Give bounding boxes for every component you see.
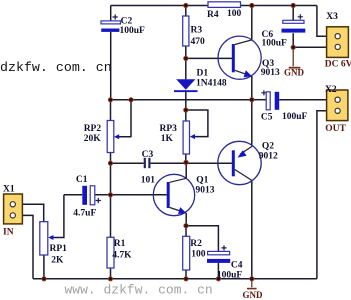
svg-text:Q1: Q1 (196, 175, 208, 185)
svg-text:R3: R3 (191, 26, 203, 36)
svg-text:IN: IN (3, 227, 14, 237)
capacitor C4 bottom plate (207, 259, 230, 263)
wire C2 drop from rail (110, 6, 112, 23)
connector X3 pin 2 (335, 44, 340, 49)
potentiometer RP1 wiper arrow (48, 235, 53, 240)
svg-text:C4: C4 (231, 261, 243, 271)
node rail-C6 (291, 3, 295, 7)
node rail-GND (250, 277, 254, 281)
wire Q1 emitter vertical (185, 213, 187, 226)
svg-text:D1: D1 (197, 68, 209, 78)
wire X2 pin2 down leg (317, 111, 335, 279)
svg-text:C1: C1 (76, 175, 88, 185)
transistor Q3 emitter line (235, 70, 252, 76)
node rail-R1 (108, 277, 112, 281)
svg-text:1N4148: 1N4148 (196, 79, 227, 89)
capacitor C6 top plate (283, 20, 304, 23)
resistor R4 100 (208, 2, 241, 8)
capacitor C1 left plate (82, 186, 87, 205)
wire top rail (111, 5, 317, 7)
wire RP1 wiper to C1 (53, 195, 64, 238)
transistor Q1 emitter arrow (178, 207, 186, 214)
potentiometer RP1 body (40, 222, 48, 255)
wire X1 pin1 to RP1 top (14, 204, 44, 221)
wire C5 right to X2 pin1 (279, 99, 335, 101)
svg-text:100uF: 100uF (217, 271, 243, 281)
wire node to X3 pin2 (293, 46, 335, 48)
wire C2 bottom to node (110, 32, 112, 100)
wire RP3 bypass loop (186, 110, 208, 137)
capacitor C3 right plate (148, 158, 150, 168)
capacitor C4 top plate (208, 251, 230, 254)
connector X2 box (327, 90, 348, 121)
svg-text:1K: 1K (161, 134, 174, 144)
svg-text:100uF: 100uF (282, 112, 308, 122)
ground symbol near X3 (292, 47, 294, 66)
potentiometer RP2 wiper arrow (114, 134, 119, 139)
wire Q3 base y=58.4 (186, 57, 232, 59)
transistor Q3 collector line (235, 40, 252, 45)
svg-text:OUT: OUT (325, 124, 346, 134)
transistor Q3 base bar (232, 44, 235, 72)
svg-text:100: 100 (191, 250, 206, 260)
capacitor C6 bottom plate (282, 29, 306, 33)
node Q1 emitter (184, 224, 188, 228)
node C6-X3 (291, 45, 295, 49)
node RP2 wiper tap (129, 98, 133, 102)
transistor Q1 base bar (167, 182, 170, 208)
wire ground rail (33, 278, 317, 280)
resistor R2 100 (183, 236, 190, 270)
capacitor C1 plus sign (96, 198, 101, 203)
capacitor C2 plus sign (113, 14, 118, 19)
svg-text:GND: GND (243, 290, 264, 300)
wire Q1 emitter to C4 (186, 226, 218, 252)
connector X1 box (4, 194, 23, 224)
wire Q1 collector vertical (185, 162, 187, 178)
connector X3 pin 1 (335, 34, 340, 39)
connector X2 pin 2 (335, 108, 340, 113)
svg-text:www. dzkfw. com. cn: www. dzkfw. com. cn (65, 283, 213, 298)
wire RP2 wiper branch (119, 100, 132, 137)
svg-text:9012: 9012 (259, 151, 278, 161)
svg-text:470: 470 (191, 37, 206, 47)
svg-text:RP2: RP2 (84, 124, 102, 134)
wire Q2 collector vertical (251, 180, 253, 279)
node rail-C4 (216, 277, 220, 281)
wire C5 left (252, 99, 266, 101)
connector X2 pin 1 (335, 97, 340, 102)
svg-text:C2: C2 (121, 17, 133, 27)
svg-text:X3: X3 (326, 12, 338, 22)
wire RP1 bottom (43, 255, 45, 279)
capacitor C2 top plate (101, 21, 121, 24)
svg-text:RP1: RP1 (50, 244, 68, 254)
svg-text:X1: X1 (3, 185, 15, 195)
transistor Q1 collector line (170, 178, 187, 182)
wire C1 / Q1 base y=195 (64, 194, 167, 196)
node output junction (250, 98, 254, 102)
svg-text:DC 6V: DC 6V (325, 60, 351, 70)
transistor Q3 circle (218, 36, 261, 79)
capacitor C5 left plate (266, 92, 270, 110)
transistor Q2 collector line (235, 170, 252, 181)
node rail-RP1 (42, 277, 46, 281)
node D1-RP3 (184, 108, 188, 112)
capacitor C2 bottom plate (101, 29, 119, 32)
transistor Q2 base bar (232, 150, 235, 176)
svg-text:100uF: 100uF (262, 38, 288, 48)
svg-text:R2: R2 (190, 239, 202, 249)
node Q1 collector (184, 160, 188, 164)
svg-text:20K: 20K (84, 134, 102, 144)
capacitor C4 plus sign (221, 245, 226, 250)
wire left chain x=110.5 (110, 100, 112, 279)
diode D1 1N4148 (176, 79, 195, 90)
svg-text:9013: 9013 (196, 186, 215, 196)
svg-text:dzkfw. com. cn: dzkfw. com. cn (0, 60, 112, 75)
svg-text:100uF: 100uF (120, 26, 146, 36)
resistor R1 4.7K (107, 237, 114, 268)
wire C4 bottom (217, 263, 219, 279)
transistor Q2 emitter line (240, 147, 252, 155)
node Q1 base (108, 193, 112, 197)
capacitor C6 plus sign (298, 14, 303, 19)
node C2-RP2 (108, 98, 112, 102)
ground symbol bottom (251, 279, 253, 288)
wire Q3 collector vertical (251, 6, 253, 40)
wire bootstrap y=100 (111, 99, 252, 101)
capacitor C3 left plate (144, 158, 146, 168)
capacitor C1 right plate (90, 186, 95, 205)
svg-text:X2: X2 (325, 85, 337, 95)
capacitor C5 right plate (275, 92, 280, 110)
potentiometer RP2 body (107, 121, 114, 153)
svg-text:Q2: Q2 (262, 141, 274, 151)
transistor Q2 circle (218, 141, 261, 184)
wire X3 pin1 from rail (317, 6, 335, 37)
wire C6 top (292, 6, 294, 21)
svg-text:GND: GND (284, 68, 305, 78)
node rail-R3 (184, 3, 188, 7)
wire node A y=163 (111, 162, 232, 164)
connector X1 pin 2 (10, 213, 15, 218)
wire Q3 emitter / Q2 emitter vertical (251, 76, 253, 147)
wire R2 top (185, 226, 187, 237)
node rail-R2 (184, 277, 188, 281)
wire bias chain x=186 (185, 6, 187, 163)
transistor Q3 emitter arrow (244, 70, 252, 77)
transistor Q1 emitter line (170, 208, 186, 213)
svg-text:R4: R4 (207, 10, 219, 20)
svg-text:RP3: RP3 (160, 124, 178, 134)
capacitor C5 plus sign (261, 90, 266, 95)
wire C6 bottom to node (292, 33, 294, 47)
node RP2 bottom (108, 161, 112, 165)
svg-text:R1: R1 (114, 239, 126, 249)
connector X1 pin 1 (10, 202, 15, 207)
node rail-Q3 collector (250, 3, 254, 7)
transistor Q2 emitter arrow (238, 150, 247, 157)
connector X3 box (327, 27, 349, 58)
svg-text:2K: 2K (51, 256, 64, 266)
svg-text:C5: C5 (261, 112, 273, 122)
node Q3 base (184, 56, 188, 60)
potentiometer RP3 wiper arrow (190, 134, 195, 139)
svg-text:101: 101 (141, 176, 156, 186)
svg-text:4.7uF: 4.7uF (73, 209, 96, 219)
wire R2 bottom (185, 270, 187, 279)
resistor R3 470 (183, 16, 189, 46)
svg-text:C3: C3 (142, 150, 154, 160)
potentiometer RP3 body (183, 121, 189, 154)
svg-text:100: 100 (227, 9, 242, 19)
svg-text:4.7K: 4.7K (112, 251, 132, 261)
svg-text:9013: 9013 (261, 68, 280, 78)
transistor Q1 circle (153, 174, 194, 215)
wire X1 pin2 to ground rail (14, 215, 33, 278)
